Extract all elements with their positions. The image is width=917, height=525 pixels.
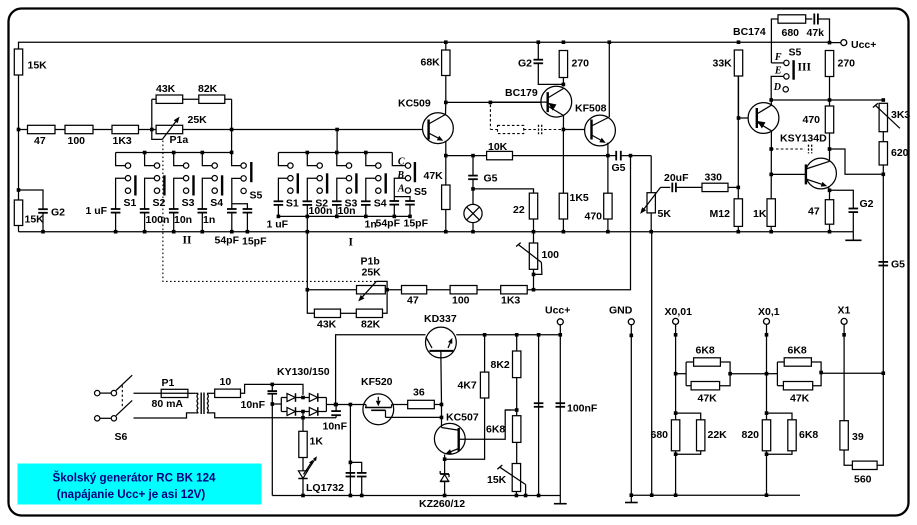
node X01 ground <box>765 493 769 497</box>
wire G2-BC179 branch <box>537 42 539 59</box>
wire 1K5 to rail <box>562 219 564 232</box>
wire G2 bottom elbow <box>538 63 563 84</box>
wire KSY base <box>771 173 806 175</box>
node left-main junction <box>17 128 21 132</box>
wire bank II cap 1 uF to rail <box>115 213 117 232</box>
transistor KF520 <box>363 394 394 425</box>
potentiometer 100 wiper <box>516 243 521 247</box>
svg-text:270: 270 <box>572 58 590 70</box>
node X001 box <box>674 372 678 376</box>
transistor BC174 <box>748 103 779 134</box>
wire 36 to base node <box>434 404 441 406</box>
node 100 wiper <box>532 273 536 277</box>
wire 270r to 470r <box>829 77 831 107</box>
svg-text:8K2: 8K2 <box>491 359 510 371</box>
diode D4 bridge <box>309 408 317 416</box>
wire box1 bottom <box>686 385 691 387</box>
node bridge bottom mid <box>301 410 305 414</box>
resistor 68K <box>442 50 450 76</box>
node bank II cap 1 uF rail <box>114 230 118 234</box>
svg-text:X0,1: X0,1 <box>758 306 780 318</box>
node LED ground <box>301 494 305 498</box>
wire base divider elbow <box>505 409 517 411</box>
transformer core <box>200 393 202 415</box>
node 4K7 rail <box>483 333 487 337</box>
svg-text:1K5: 1K5 <box>570 192 589 204</box>
svg-text:S1: S1 <box>286 198 299 210</box>
svg-text:Ucc+: Ucc+ <box>851 39 876 51</box>
wire zener to ground <box>444 481 446 495</box>
resistor 6K8 att <box>788 420 796 451</box>
wire emitter to G2 <box>830 190 854 208</box>
capacitor 10nF output <box>331 410 341 412</box>
wire wiper to 20uF <box>661 186 671 188</box>
wire collector level <box>771 99 883 101</box>
terminal Ucc+ top <box>841 40 847 46</box>
node 8K2-6K8 <box>515 408 519 412</box>
svg-text:G5: G5 <box>891 259 905 271</box>
svg-text:47: 47 <box>34 135 46 147</box>
wire 8K2 riser <box>516 335 518 351</box>
node filter A ground <box>349 494 353 498</box>
node X1 feedback <box>882 371 886 375</box>
svg-text:100n: 100n <box>146 214 170 226</box>
switch I S2 contacts <box>317 163 322 168</box>
wire box1 frame right <box>720 362 731 386</box>
svg-text:GND: GND <box>609 305 633 317</box>
node KF520 gate KC507 <box>440 416 444 420</box>
wire bank II cap 100n to rail <box>144 213 146 232</box>
svg-text:39: 39 <box>852 431 864 443</box>
wire fuse to primary <box>188 392 196 394</box>
svg-text:33K: 33K <box>713 58 733 70</box>
svg-text:47K: 47K <box>698 393 718 405</box>
wire Ucc+ rail to terminal <box>830 42 841 44</box>
wire 43K-82K box left <box>151 99 153 129</box>
potentiometer 5K body <box>647 193 655 213</box>
resistor 6K8 divider <box>513 416 521 443</box>
node bank II cap 10n rail <box>172 230 176 234</box>
svg-text:I: I <box>349 237 354 249</box>
svg-text:15K: 15K <box>487 474 507 486</box>
wire KF508 base <box>563 129 591 131</box>
wire collector node right <box>446 101 548 103</box>
node 54pF I bus <box>393 215 397 219</box>
wire 20uF to 330 <box>676 186 702 188</box>
node bank I cap 1 uF <box>277 215 281 219</box>
wire box2 bottom <box>777 385 783 387</box>
svg-text:KSY134D: KSY134D <box>780 133 827 145</box>
node 270 top <box>562 40 566 44</box>
node cap 100nF-a rail <box>537 333 541 337</box>
bridge left side <box>280 398 282 412</box>
node bank II cap 100n rail <box>143 230 147 234</box>
capacitor 1 uF bank I <box>274 200 284 202</box>
node G5-lamp branch <box>471 154 475 158</box>
wire 22 to 100 pot <box>533 219 535 243</box>
svg-text:80 mA: 80 mA <box>152 398 184 410</box>
dashed link vertical <box>489 105 491 130</box>
svg-text:B: B <box>396 170 404 181</box>
svg-text:620: 620 <box>891 147 909 159</box>
terminal X0,1 <box>764 318 770 324</box>
svg-text:D: D <box>773 82 781 93</box>
svg-text:S1: S1 <box>124 197 137 209</box>
resistor 22K att <box>697 420 705 451</box>
capacitor G5 right <box>879 261 889 263</box>
zener KZ260/12 <box>440 473 449 475</box>
wire 4K7 riser <box>484 335 486 372</box>
transistor KSY134D <box>806 158 837 189</box>
svg-text:(napájanie Ucc+ je asi 12V): (napájanie Ucc+ je asi 12V) <box>57 488 206 501</box>
svg-text:10n: 10n <box>174 214 192 226</box>
wire bank II S3 cap elbow <box>174 178 184 209</box>
wire main oscillator node <box>19 129 429 131</box>
diode D2 bridge <box>309 394 317 402</box>
node bank I riser main wire <box>335 128 339 132</box>
wire bank I S1 cap elbow <box>278 178 287 201</box>
resistor 470 left <box>604 193 612 219</box>
potentiometer 15K body <box>512 464 520 492</box>
dashed KSY base link <box>771 148 805 150</box>
wire 1K to rail <box>770 226 772 231</box>
wire KF508 collector riser <box>608 42 610 117</box>
svg-text:G5: G5 <box>612 162 626 174</box>
node 47K rail <box>444 230 448 234</box>
wire E contact elbow <box>771 76 784 100</box>
wire top Ucc+ rail <box>19 42 830 49</box>
node 54pF rail <box>230 230 234 234</box>
node 10nF1 top <box>271 383 275 387</box>
wire bank II bus <box>116 152 232 154</box>
potentiometer P1b wiper arrow <box>363 281 377 296</box>
wire 10nF2 bottom <box>335 415 337 418</box>
node M12 rail <box>737 230 741 234</box>
dashed link cap to emitter <box>544 129 561 131</box>
wire bank II S1 cap elbow <box>116 178 126 209</box>
wire S6 pole2 out <box>134 413 196 418</box>
switch II S3 contacts <box>183 163 188 168</box>
node 5K rail <box>649 230 653 234</box>
wire 68K to collector <box>445 76 447 103</box>
wire 33K to base <box>738 76 740 118</box>
wire filter riser <box>349 405 351 496</box>
terminal Ucc+ bottom <box>557 319 563 325</box>
wire G2 to ground rail <box>42 213 44 232</box>
svg-text:1 uF: 1 uF <box>267 219 289 231</box>
wire 1K LED riser <box>302 418 304 432</box>
resistor 270 BC179 <box>559 51 567 78</box>
node bridge top mid <box>301 396 305 400</box>
wire 22K pair bottom <box>676 451 701 454</box>
wire bank I cap 10n to bus <box>336 205 338 217</box>
svg-text:15K: 15K <box>28 60 48 72</box>
switch III contacts F E D <box>784 60 789 65</box>
node bank II bus S2 <box>143 151 147 155</box>
switch I S4 bar <box>385 173 387 193</box>
node bank II bus S4 <box>201 151 205 155</box>
switch II S1 bar <box>134 175 136 195</box>
wire bank I cap 100n to bus <box>306 205 308 217</box>
svg-text:43K: 43K <box>317 319 337 331</box>
wire box1 frame <box>685 362 687 386</box>
switch I S2 bar <box>326 173 328 193</box>
wire KC507 base <box>459 410 511 439</box>
node KD337 riser <box>334 403 338 407</box>
wire Ucc terminal riser <box>559 325 561 496</box>
capacitor 15pF bank II <box>243 208 253 210</box>
node collector-wire junction <box>769 98 773 102</box>
svg-text:M12: M12 <box>710 208 731 220</box>
node bank I bus S3 <box>335 151 339 155</box>
title box <box>18 464 262 505</box>
wire P1b wiper elbow <box>376 281 387 289</box>
wire KD337 riser <box>336 335 426 405</box>
node filter caps link <box>349 461 353 465</box>
wire box1 top <box>686 361 694 363</box>
wire secondary top <box>210 392 215 394</box>
svg-text:III: III <box>798 62 812 74</box>
wire 15pF I to bus <box>409 205 411 217</box>
svg-text:S4: S4 <box>210 197 223 209</box>
svg-text:1n: 1n <box>203 214 215 226</box>
switch II S5 contacts <box>241 163 246 168</box>
switch I S5 bar <box>414 162 416 182</box>
resistor 36 <box>408 400 435 408</box>
capacitor 15pF bank I <box>405 200 415 202</box>
switch II S2 contacts <box>154 163 159 168</box>
svg-text:100n: 100n <box>309 205 333 217</box>
wire 54pF I to bus <box>393 205 395 217</box>
dashed KSY capacitor <box>808 145 810 154</box>
wire KSY emitter <box>828 187 829 200</box>
wire 6K8 to 15K <box>516 442 518 463</box>
node 15pF I bus <box>408 215 412 219</box>
capacitor G2 BC179 <box>534 59 544 61</box>
wire 6K8 pair top <box>767 413 793 420</box>
capacitor G2 left <box>38 208 48 210</box>
svg-text:G2: G2 <box>860 198 874 210</box>
resistor 680 fb <box>778 15 806 23</box>
svg-text:470: 470 <box>803 114 821 126</box>
dashed link box to cap <box>524 129 536 131</box>
resistor 1K3 P1b <box>501 286 528 294</box>
lamp indicator <box>464 204 482 222</box>
wire BC179 emitter <box>562 116 564 130</box>
svg-text:100: 100 <box>542 249 560 261</box>
switch S6 pole2 contacts <box>95 416 100 421</box>
wire LED to ground <box>302 479 304 496</box>
svg-text:20uF: 20uF <box>664 172 689 184</box>
wire DC plus <box>326 404 363 406</box>
wire bank I to P1b <box>306 216 308 289</box>
ground symbol right <box>852 232 854 241</box>
svg-text:BC174: BC174 <box>733 26 766 38</box>
svg-text:G2: G2 <box>51 207 65 219</box>
node X01 marker <box>765 333 769 337</box>
terminal X1 <box>841 318 847 324</box>
switch S6 gang dashed <box>121 385 123 407</box>
svg-text:KF520: KF520 <box>361 376 393 388</box>
resistor 47 right <box>825 200 833 225</box>
svg-text:Školský generátor RC BK 124: Školský generátor RC BK 124 <box>52 472 216 485</box>
wire bank I S5 cap link <box>394 197 410 201</box>
node 47r rail <box>828 230 832 234</box>
wire bank II cap 1n to rail <box>201 213 203 232</box>
wire P1b box right <box>383 290 388 314</box>
wire bank I S1 stem <box>278 153 287 166</box>
svg-text:15pF: 15pF <box>404 218 429 230</box>
wire riser to P1b chain <box>527 156 630 290</box>
wire 1K5 riser <box>562 130 564 194</box>
wire emitter to 4K7 <box>445 398 485 459</box>
resistor 1K5 <box>559 193 567 219</box>
svg-text:100: 100 <box>68 135 86 147</box>
node P1b right <box>385 288 389 292</box>
capacitor 1 uF bank II <box>111 208 121 210</box>
node KF508 collector top <box>608 40 612 44</box>
node bank I bus S4 <box>364 151 368 155</box>
resistor 620 <box>879 142 887 165</box>
resistor 47 P1b <box>402 286 427 294</box>
wire bank II S3 stem <box>174 153 184 166</box>
potentiometer 3K3 body <box>879 103 887 131</box>
resistor 39 <box>840 421 848 450</box>
svg-text:680: 680 <box>782 27 800 39</box>
svg-text:A: A <box>397 184 405 195</box>
resistor 15K lower-left <box>14 200 22 226</box>
svg-text:3K3: 3K3 <box>891 109 910 121</box>
wire 5K to attenuator ground <box>651 232 653 496</box>
dashed capacitor <box>538 125 540 135</box>
resistor 47K box1 <box>691 382 720 390</box>
wire X1 column <box>843 324 845 420</box>
svg-text:10nF: 10nF <box>241 399 266 411</box>
node P1a left <box>150 128 154 132</box>
wire bank I S5 B elbow <box>394 178 405 201</box>
wire bank II S1 stem <box>116 153 126 166</box>
node P1a right <box>230 128 234 132</box>
capacitor 1n bank I <box>361 200 371 202</box>
wire 470 riser <box>607 156 609 194</box>
switch S6 pole2 blade <box>116 400 132 415</box>
svg-text:1K: 1K <box>753 208 767 220</box>
switch II S2 bar <box>163 175 165 195</box>
capacitor 54pF bank II <box>227 208 237 210</box>
resistor 560 <box>852 461 877 469</box>
node bank I cap 100n <box>306 215 310 219</box>
wire BC174 collector <box>770 100 772 105</box>
node dashed tap <box>489 101 493 105</box>
wire filter caps link <box>350 462 361 472</box>
wire 620 down <box>882 165 884 373</box>
svg-text:KC507: KC507 <box>446 412 479 424</box>
resistor 43K top <box>156 95 183 103</box>
svg-text:LQ1732: LQ1732 <box>306 482 344 494</box>
node 15K wiper ground <box>524 494 528 498</box>
capacitor 10nF input <box>268 390 278 392</box>
switch I S1 bar <box>297 173 299 193</box>
node bank II cap 1n rail <box>201 230 205 234</box>
node 1K5 rail <box>562 230 566 234</box>
wire 10nF1 stub <box>271 384 273 391</box>
node filter riser <box>349 403 353 407</box>
wire G2 branch <box>19 190 44 209</box>
wire bridge top mid <box>296 397 309 399</box>
wire 47r to rail <box>829 224 831 232</box>
switch I S3 bar <box>355 173 357 193</box>
resistor M12 <box>734 199 742 227</box>
resistor 270 right <box>825 51 833 77</box>
resistor 680 att <box>671 420 679 451</box>
wire 270 to collector <box>562 78 564 87</box>
node 15K ground <box>515 494 519 498</box>
node BC174 emitter dashed <box>769 147 773 151</box>
wire GND riser <box>630 325 632 495</box>
svg-text:47: 47 <box>808 206 820 218</box>
node GND marker <box>630 334 634 338</box>
node X001 pair top <box>674 411 678 415</box>
node lamp rail <box>471 230 475 234</box>
resistor 8K2 <box>513 351 521 378</box>
wire BC174 emitter <box>770 131 772 199</box>
capacitor filter A <box>346 472 356 474</box>
wire 68K riser <box>445 42 447 50</box>
diode D3 bridge <box>287 408 295 416</box>
wire 5K bottom <box>650 213 652 232</box>
resistor 820 att <box>762 420 770 451</box>
capacitor 20uF <box>671 183 673 193</box>
transistor BC179 <box>541 86 572 117</box>
svg-text:X1: X1 <box>838 305 851 317</box>
wire 15pF to rail <box>246 213 248 232</box>
svg-text:10: 10 <box>220 376 232 388</box>
transistor KF508 <box>585 115 616 146</box>
svg-text:G2: G2 <box>518 58 532 70</box>
node X01 pair top <box>765 411 769 415</box>
svg-text:470: 470 <box>585 211 603 223</box>
node X1 marker <box>842 333 846 337</box>
svg-text:E: E <box>774 66 782 77</box>
switch III bar <box>792 60 794 79</box>
ganged link dotted line P1a-P1b <box>163 141 376 282</box>
wire bank I S4 stem <box>366 153 376 166</box>
wire attenuator ground rail <box>631 494 800 496</box>
resistor 15K upper-left <box>14 49 22 75</box>
wire bank I S3 cap elbow <box>337 178 347 201</box>
node cap2 top <box>334 403 338 407</box>
ground symbol power <box>559 496 561 504</box>
LED LQ1732 <box>298 471 307 479</box>
potentiometer P1a 25K body <box>156 125 183 133</box>
svg-text:6K8: 6K8 <box>788 345 807 357</box>
wire secondary bottom <box>210 413 337 418</box>
capacitor G2 right <box>849 208 859 210</box>
svg-text:5K: 5K <box>658 208 672 220</box>
switch I S5 contacts C B A <box>405 163 410 168</box>
switch II S1 contacts <box>125 163 130 168</box>
node Ucc terminal rail <box>559 333 563 337</box>
capacitor 100n bank I <box>303 200 313 202</box>
node left-G2 junction <box>17 188 21 192</box>
switch II S3 bar <box>192 175 194 195</box>
wire S6 pole1 out <box>134 392 162 394</box>
wire bank II S2 cap elbow <box>145 178 155 209</box>
wire 100 to P1b rail <box>533 269 535 289</box>
wire branch to 22 <box>473 189 534 193</box>
node KC509 collector <box>444 101 448 105</box>
resistor 43K bottom <box>314 309 340 317</box>
